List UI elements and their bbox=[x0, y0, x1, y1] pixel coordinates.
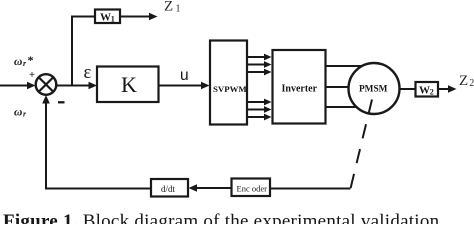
block W1 bbox=[95, 10, 120, 24]
wires: six gate pulse arrows SVPWM to Inverter bbox=[247, 54, 272, 121]
svg-text:2: 2 bbox=[469, 78, 474, 89]
svg-text:Enc oder: Enc oder bbox=[237, 184, 268, 194]
caption: Figure 1 bbox=[3, 211, 474, 233]
svg-text:1: 1 bbox=[111, 15, 115, 24]
svg-text:SVPWM: SVPWM bbox=[213, 84, 247, 94]
block K (controller) bbox=[97, 67, 159, 103]
wire: W2 output to Z2 bbox=[438, 85, 457, 93]
svg-text:2: 2 bbox=[430, 88, 434, 97]
svg-text:ω: ω bbox=[14, 56, 22, 68]
block d/dt bbox=[151, 179, 188, 197]
svg-text:r: r bbox=[23, 110, 27, 119]
wire: branch up to W1 bbox=[72, 13, 158, 86]
label omega_r* (reference speed) bbox=[14, 53, 34, 68]
wire: Encoder to d/dt bbox=[189, 184, 232, 192]
svg-text:d/dt: d/dt bbox=[161, 184, 176, 194]
wire: control signal u bbox=[159, 82, 210, 90]
svg-text:ε: ε bbox=[84, 63, 92, 83]
label - (minus sign at summing input) bbox=[58, 101, 65, 103]
svg-text:r: r bbox=[23, 59, 27, 68]
label omega_r (feedback speed) bbox=[14, 107, 27, 119]
label Z2 bbox=[459, 73, 474, 89]
svg-text:W: W bbox=[100, 12, 111, 24]
block W2 bbox=[416, 82, 439, 97]
wire: feedback line to Encoder bbox=[270, 188, 351, 190]
block SVPWM bbox=[210, 41, 247, 125]
svg-text:Inverter: Inverter bbox=[282, 84, 318, 95]
svg-text:Z: Z bbox=[459, 73, 468, 89]
svg-text:1: 1 bbox=[176, 4, 181, 15]
block Inverter bbox=[273, 50, 326, 124]
svg-text:+: + bbox=[29, 70, 35, 81]
svg-text:K: K bbox=[121, 72, 137, 97]
wire: reference input bbox=[0, 82, 36, 90]
svg-text:ω: ω bbox=[14, 107, 22, 119]
wire: speed output to W2 bbox=[400, 88, 417, 90]
svg-text:u: u bbox=[180, 67, 189, 84]
wire: error signal to K bbox=[56, 82, 97, 90]
svg-text:*: * bbox=[28, 53, 34, 67]
svg-text:W: W bbox=[419, 85, 430, 97]
wire: dashed mechanical coupling PMSM to encoder line bbox=[351, 100, 373, 189]
summing junction bbox=[36, 74, 57, 95]
motor PMSM bbox=[349, 63, 400, 114]
wires: three phase lines Inverter to PMSM bbox=[326, 66, 375, 107]
block Encoder bbox=[232, 179, 271, 197]
wire: feedback to summing junction bbox=[42, 95, 151, 189]
label Z1 bbox=[164, 0, 181, 15]
svg-text:PMSM: PMSM bbox=[359, 85, 388, 95]
svg-text:Z: Z bbox=[164, 0, 173, 15]
